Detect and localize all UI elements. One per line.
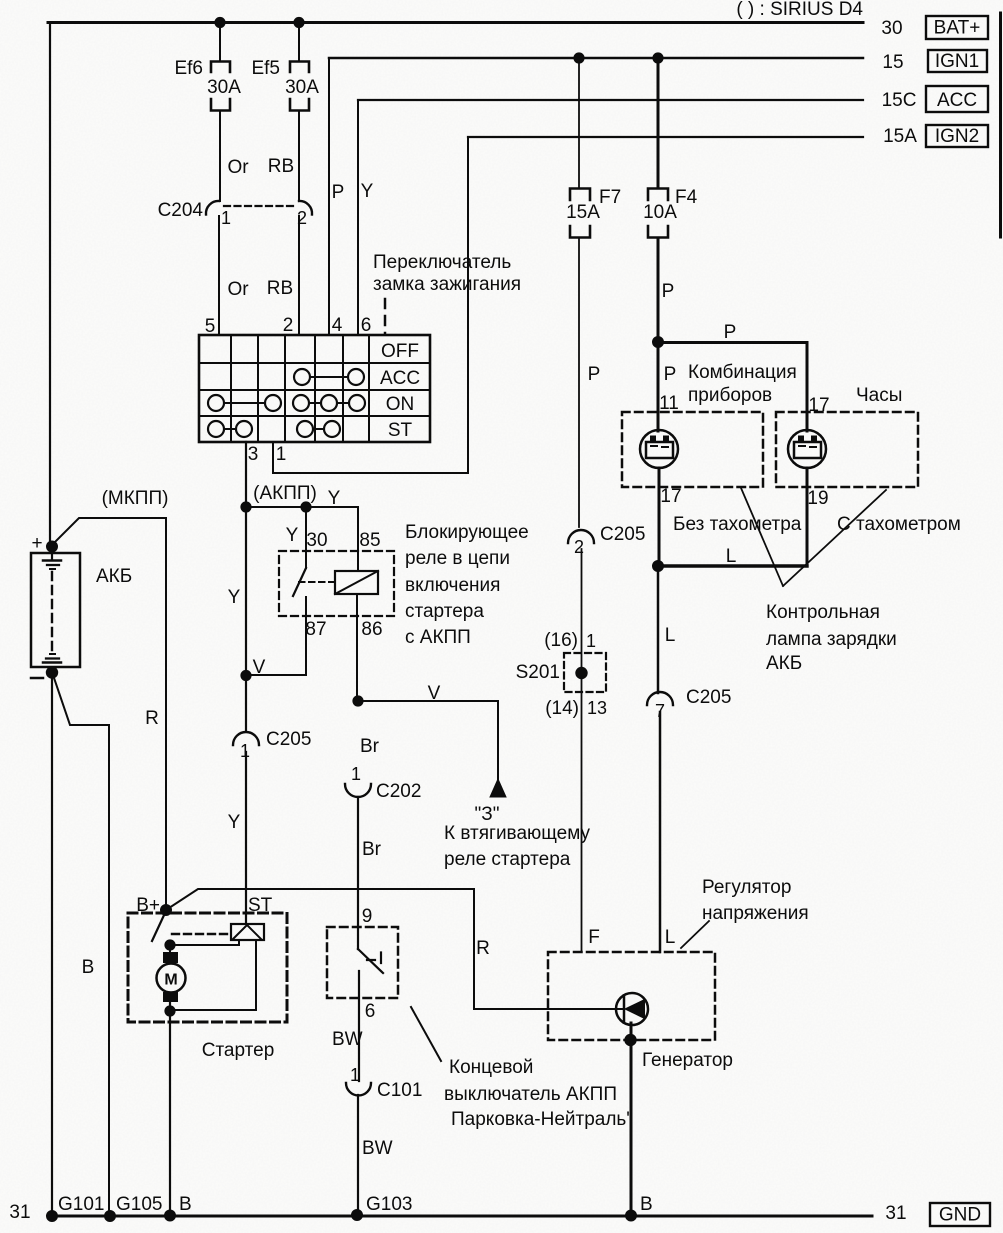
label GND box [930,1203,990,1226]
relay K1 dashed box [279,551,394,616]
wire P from IGN1 rail down to switch pin 4 [328,58,330,335]
node 15 IGN1 rail [329,50,987,73]
wire relay pin 30 lead [305,507,307,568]
svg-text:напряжения: напряжения [702,903,809,924]
wire dashed pointer from title to switch [384,299,387,334]
node junction P to clock branch [653,337,663,347]
svg-text:1: 1 [351,764,361,784]
svg-text:C101: C101 [377,1080,422,1101]
wire C204-2 to switch pin 2 [298,216,300,335]
svg-text:S201: S201 [516,662,560,683]
starter solenoid mechanical link dashed [172,933,231,935]
clock dashed box [776,412,918,487]
node junction АКПП left [241,502,250,511]
ignition switch S1 contact table [199,335,430,442]
svg-text:Or: Or [227,157,249,178]
svg-text:Y: Y [328,488,341,509]
svg-text:F4: F4 [675,187,698,208]
svg-text:Переключатель: Переключатель [373,252,511,273]
svg-text:9: 9 [362,906,373,927]
svg-text:Стартер: Стартер [202,1040,275,1061]
label ignition lock switch title [373,252,521,295]
svg-text:L: L [665,625,676,646]
junction on IGN1 rail at F4 [653,53,662,62]
splice S201 dashed box [564,653,606,692]
label minus [31,677,43,680]
svg-text:Генератор: Генератор [642,1050,733,1071]
connector C204 pins 1-2 [158,200,312,228]
svg-text:лампа зарядки: лампа зарядки [766,629,897,650]
svg-text:10A: 10A [643,202,677,223]
svg-text:15: 15 [882,52,903,73]
svg-text:BW: BW [332,1029,363,1050]
svg-text:выключатель АКПП: выключатель АКПП [444,1084,617,1105]
svg-text:1: 1 [221,208,231,228]
arrow to starter solenoid [490,779,506,797]
svg-text:реле в цепи: реле в цепи [405,548,510,569]
fuse F4 10A [643,58,698,238]
connector C205 pin 1 [233,729,311,761]
svg-text:стартера: стартера [405,601,484,622]
fuse Ef6 30A [174,24,241,201]
wire battery minus to G101 [51,677,53,1216]
svg-text:IGN1: IGN1 [935,51,979,72]
svg-text:Ef5: Ef5 [251,58,280,79]
svg-text:ACC: ACC [380,368,420,389]
svg-text:IGN2: IGN2 [935,126,979,147]
wire C205-1 down to ST contact (Y) [245,752,247,923]
svg-text:30: 30 [881,18,902,39]
wire АКПП branch to relay pins 30/85 [246,507,358,571]
label Комбинация приборов [688,362,797,406]
wire battery plus to R branch [52,518,166,909]
svg-text:2: 2 [283,315,294,336]
svg-text:OFF: OFF [381,341,419,362]
svg-text:V: V [428,683,441,704]
node 31 ground rail [52,1215,872,1218]
svg-text:B: B [179,1194,192,1215]
svg-text:F: F [588,927,600,948]
wire relay pin 87 to Y node [246,597,306,675]
pointer line PN switch to its label [411,1007,441,1061]
wire contact right side to motor bottom [174,941,256,1010]
node 30 BAT+ rail [48,16,988,39]
svg-text:13: 13 [587,698,607,718]
svg-text:приборов: приборов [688,385,772,406]
svg-text:R: R [476,938,490,959]
svg-text:Or: Or [227,279,249,300]
svg-text:Y: Y [228,587,241,608]
junction on IGN1 rail at F7 [574,53,583,62]
svg-text:АКБ: АКБ [96,566,132,587]
relay coil [335,571,378,594]
svg-text:Комбинация: Комбинация [688,362,797,383]
junction on BAT+ rail at Ef5 [294,18,303,27]
connector C202 pin 1 [345,764,421,802]
svg-text:АКБ: АКБ [766,653,802,674]
svg-text:2: 2 [574,537,584,557]
ground G103 [352,1210,362,1220]
wire C202 down to PN switch (Br) [357,797,359,949]
charge warning lamp (clock) [788,430,826,468]
starter dashed box [128,913,287,1022]
wire starter motor to ground B [169,1002,171,1216]
starter ST solenoid contact [231,924,264,940]
contacts ACC row [294,369,364,385]
svg-text:G103: G103 [366,1194,412,1215]
wire F4 to cluster lamp (P) [657,238,660,431]
svg-text:B: B [82,957,95,978]
connector C205 pin 2 [568,524,645,557]
label park-neutral switch text [444,1057,633,1130]
svg-text:Парковка-Нейтраль": Парковка-Нейтраль" [451,1109,633,1130]
battery АКБ [31,551,80,667]
svg-text:(МКПП): (МКПП) [102,488,169,509]
wire clock lamp down to L line [806,468,809,566]
svg-text:B: B [640,1194,653,1215]
node junction 86-V branch [353,696,362,705]
contacts ST row [208,421,340,437]
svg-text:Блокирующее: Блокирующее [405,522,529,543]
svg-text:M: M [164,972,177,989]
svg-text:19: 19 [807,488,828,509]
svg-text:Y: Y [286,525,299,546]
generator diode D1 [616,993,648,1025]
junction on BAT+ rail at Ef6 [215,18,224,27]
svg-text:31: 31 [9,1202,30,1223]
svg-text:6: 6 [361,315,372,336]
wire PN switch lower pin [358,971,360,1081]
svg-text:RB: RB [268,156,294,177]
node S201 splice [576,668,586,678]
svg-text:V: V [253,657,266,678]
svg-text:15A: 15A [566,202,600,223]
svg-text:BW: BW [362,1138,393,1159]
svg-text:85: 85 [359,530,380,551]
svg-text:15C: 15C [882,90,917,111]
svg-text:86: 86 [361,619,382,640]
wire C204-1 to switch pin 5 [218,216,220,335]
svg-text:C205: C205 [266,729,311,750]
wire L joining line [658,564,807,567]
svg-text:Без тахометра: Без тахометра [673,514,802,535]
wire C205-2 to generator F (P) [581,549,583,952]
node B+ junction [161,905,171,915]
svg-text:( ) : SIRIUS D4: ( ) : SIRIUS D4 [736,0,863,20]
svg-text:(АКПП): (АКПП) [253,483,317,504]
svg-text:(14): (14) [545,698,579,719]
svg-text:3: 3 [248,444,259,465]
svg-text:P: P [332,182,345,203]
svg-text:1: 1 [586,631,596,651]
svg-text:30A: 30A [207,77,241,98]
svg-text:C205: C205 [686,687,731,708]
ground node starter B [165,1211,175,1221]
starter B+ switch blade [152,913,165,941]
svg-text:17: 17 [660,486,681,507]
wire battery minus to G105 (B) [53,675,109,1216]
svg-text:с АКПП: с АКПП [405,627,471,648]
fuse Ef5 30A [251,24,319,201]
node junction АКПП right [301,502,310,511]
svg-text:F7: F7 [599,187,621,208]
svg-text:реле стартера: реле стартера [444,849,571,870]
svg-text:87: 87 [305,619,326,640]
svg-text:1: 1 [350,1065,360,1085]
node junction V on Y wire [241,671,250,680]
wire P branch to clock lamp [658,343,807,432]
svg-text:C202: C202 [376,781,421,802]
svg-text:BAT+: BAT+ [934,18,981,39]
pointer line clock to lamp note [783,490,886,586]
connector C205 pin 7 [647,687,731,721]
svg-text:ACC: ACC [937,90,977,111]
wire R from B+ to generator [166,889,624,1009]
node starter motor top junction [165,940,174,949]
svg-text:GND: GND [939,1205,981,1226]
svg-text:включения: включения [405,575,500,596]
charge warning lamp (cluster) [640,430,678,468]
label to starter solenoid text [444,823,591,870]
wire BAT+ rail to battery plus (left vertical) [49,23,51,546]
svg-text:P: P [662,281,675,302]
svg-text:Контрольная: Контрольная [766,602,880,623]
svg-text:G101: G101 [58,1194,104,1215]
wire cluster lamp to L junction [658,468,661,566]
svg-text:К втягивающему: К втягивающему [444,823,591,844]
svg-text:Y: Y [228,812,241,833]
svg-text:15A: 15A [883,126,917,147]
starter motor M1 [157,945,186,1002]
wire right border segment [999,13,1002,237]
svg-text:6: 6 [365,1001,376,1022]
svg-text:замка зажигания: замка зажигания [373,274,521,295]
svg-text:Концевой: Концевой [449,1057,533,1078]
ground G105 [105,1211,115,1221]
svg-text:4: 4 [332,315,343,336]
park-neutral switch dashed box [327,927,398,998]
pointer line cluster to lamp note [741,488,783,586]
relay switch blade [293,568,306,596]
svg-text:ST: ST [388,420,413,441]
node 15C ACC rail [358,86,988,112]
wire C101 to G103 (BW) [357,1095,359,1216]
park-neutral switch blade [358,949,383,973]
label Контрольная лампа зарядки АКБ [766,602,897,674]
battery minus terminal node [47,667,57,677]
fuse F7 15A [566,58,621,238]
svg-text:1: 1 [276,444,287,465]
svg-text:RB: RB [267,278,293,299]
wire L down to C205-7 [657,566,660,693]
ground G101 [47,1211,57,1221]
svg-text:Y: Y [361,181,374,202]
wire switch pin 1 loop to IGN2 rail [273,137,468,473]
instrument cluster dashed box [622,412,763,487]
svg-text:P: P [588,364,601,385]
svg-text:C204: C204 [158,200,204,221]
node starter motor bottom junction [165,1006,174,1015]
svg-text:(16): (16) [544,630,578,651]
svg-text:Br: Br [362,839,382,860]
node L junction [653,561,663,571]
wire Y from ACC rail down to switch pin 6 [357,100,359,335]
svg-text:G105: G105 [116,1194,162,1215]
svg-text:30: 30 [306,530,327,551]
park-neutral fixed contact tick [367,953,381,964]
wire V branch to starter solenoid arrow [358,701,498,779]
svg-text:30A: 30A [285,77,319,98]
svg-text:Регулятор: Регулятор [702,877,791,898]
svg-text:Ef6: Ef6 [174,58,203,79]
svg-text:P: P [724,322,737,343]
pointer line regulator label to box [681,921,709,948]
svg-text:R: R [145,708,159,729]
svg-text:L: L [665,927,676,948]
svg-text:Br: Br [360,736,380,757]
svg-text:P: P [664,364,677,385]
svg-text:"З": "З" [475,804,500,825]
battery plus terminal node [47,542,57,552]
wire F7 to C205-2 (P) [578,238,580,527]
wire generator to ground B [630,1023,633,1216]
label relay description [405,522,529,648]
svg-text:+: + [31,533,42,554]
wire C205-7 to generator L [659,712,662,952]
wire relay pin 86 down (Br) [356,594,358,701]
wire switch pin 3 down (Y) [245,442,247,731]
connector C101 pin 1 [346,1065,422,1101]
generator dashed box [548,952,715,1040]
label Регулятор напряжения [702,877,809,924]
contacts ON row [208,395,365,411]
svg-text:31: 31 [885,1203,906,1224]
node generator output junction [625,1035,635,1045]
ground node generator B [626,1211,636,1221]
wire motor top to contact [170,941,239,945]
node 15A IGN2 rail [468,125,988,147]
svg-text:Часы: Часы [856,385,902,406]
svg-text:ON: ON [386,394,415,415]
relay mechanical link dashed [299,581,334,583]
svg-text:L: L [726,546,737,567]
svg-text:C205: C205 [600,524,645,545]
